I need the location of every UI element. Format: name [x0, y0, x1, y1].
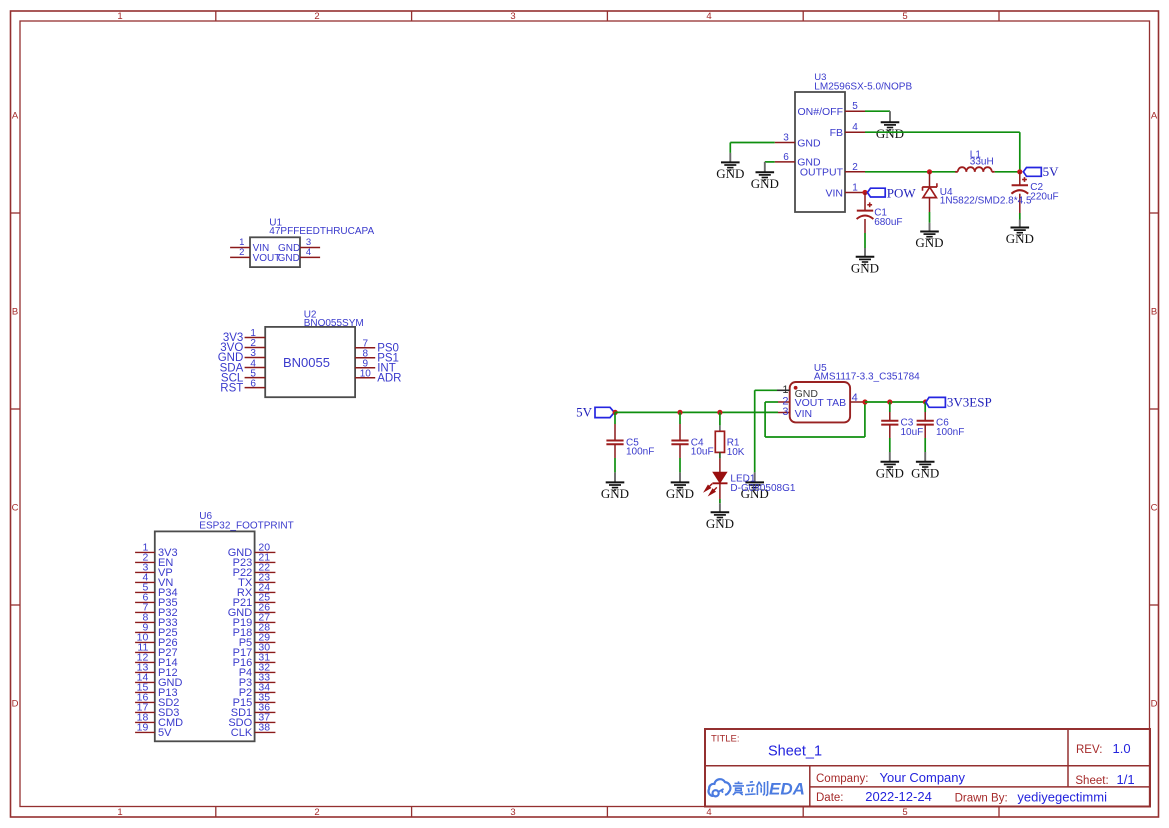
- U6 pin 12 P14: [135, 651, 177, 669]
- U6 pin 11 P27: [135, 641, 177, 659]
- svg-text:1: 1: [117, 807, 122, 818]
- U6 pin 28 P18: [233, 621, 276, 639]
- U6 pin 4 VN: [135, 571, 173, 589]
- wire rail to C6: [924, 402, 926, 421]
- svg-text:2: 2: [239, 247, 244, 258]
- svg-text:GND: GND: [278, 253, 300, 264]
- svg-text:10uF: 10uF: [691, 447, 714, 458]
- svg-text:33uH: 33uH: [970, 157, 994, 168]
- sheet title text: [768, 744, 822, 760]
- power flag 5V input: [576, 404, 614, 419]
- U2 pin 9 INT: [355, 358, 396, 374]
- U2 pin 6 RST: [220, 378, 265, 394]
- svg-text:VIN: VIN: [795, 408, 813, 420]
- U6 value label: [199, 521, 293, 532]
- junction at R1: [717, 410, 722, 415]
- svg-text:ON#/OFF: ON#/OFF: [797, 106, 843, 118]
- U6 pin 35 P15: [233, 691, 276, 709]
- U2 pin 1 3V3: [223, 328, 265, 344]
- svg-text:2: 2: [852, 162, 858, 173]
- IC U6 ESP32 body: [155, 531, 255, 741]
- R1 value label: [727, 447, 745, 458]
- U6 pin 38 CLK: [231, 721, 276, 739]
- svg-text:3: 3: [782, 406, 788, 418]
- U5 pin1 orientation dot: [794, 386, 798, 390]
- U6 pin 14 GND: [135, 671, 182, 689]
- svg-text:2: 2: [314, 11, 319, 22]
- U6 pin 2 EN: [135, 551, 173, 569]
- svg-text:GND: GND: [716, 166, 744, 181]
- capacitor C6 100nF: [917, 418, 965, 438]
- svg-text:RST: RST: [220, 382, 243, 394]
- wire C1 to ground: [864, 219, 866, 248]
- U6 pin 34 P2: [239, 681, 276, 699]
- U6 pin 21 P23: [233, 551, 276, 569]
- wire diode node to U4: [929, 172, 931, 187]
- svg-text:BNO055SYM: BNO055SYM: [304, 318, 364, 329]
- svg-text:GND: GND: [666, 486, 694, 501]
- date value: [865, 789, 932, 804]
- wire rail to C4: [679, 412, 681, 440]
- junction at 5V node: [1017, 169, 1022, 174]
- svg-text:GND: GND: [751, 176, 779, 191]
- svg-text:10: 10: [360, 368, 372, 379]
- svg-text:BN0055: BN0055: [283, 355, 330, 370]
- U6 pin 33 P3: [239, 671, 276, 689]
- U2 pin 10 ADR: [355, 368, 401, 384]
- wire U4 to ground: [929, 198, 931, 223]
- ground under U5 pin 1: [741, 472, 769, 501]
- svg-text:6: 6: [783, 152, 789, 163]
- logo EDA text: [769, 780, 805, 799]
- company value: [880, 770, 966, 785]
- wire LED to ground: [719, 483, 721, 503]
- svg-text:5: 5: [902, 11, 907, 22]
- svg-text:5V: 5V: [158, 727, 172, 739]
- resistor R1 10K: [715, 431, 724, 452]
- svg-text:3: 3: [510, 807, 515, 818]
- svg-text:38: 38: [258, 721, 270, 733]
- U5 pin 2 VOUT: [778, 395, 824, 409]
- svg-text:AMS1117-3.3_C351784: AMS1117-3.3_C351784: [814, 372, 920, 383]
- R1 reference label: [727, 437, 740, 448]
- svg-text:LM2596SX-5.0/NOPB: LM2596SX-5.0/NOPB: [814, 82, 912, 93]
- row letters right: [1151, 111, 1158, 710]
- U2 part name text: [283, 355, 330, 370]
- svg-text:A: A: [12, 111, 19, 122]
- date label: [816, 792, 844, 804]
- ground under U3 pin 3: [716, 153, 744, 181]
- U5 pin 4 TAB: [827, 392, 865, 409]
- ground under C5: [601, 472, 629, 501]
- svg-text:CLK: CLK: [231, 727, 253, 739]
- svg-text:1: 1: [117, 11, 122, 22]
- ground under U3 pin 5: [876, 111, 904, 141]
- svg-text:4: 4: [706, 11, 711, 22]
- wire VOUT loop: [765, 402, 865, 437]
- wire VIN to C1: [864, 193, 866, 211]
- U5 reference label: [814, 363, 827, 374]
- U3 value label: [814, 82, 912, 93]
- svg-text:ADR: ADR: [377, 373, 401, 385]
- U3 pin 1 VIN: [825, 183, 865, 200]
- svg-text:5: 5: [902, 807, 907, 818]
- U6 pin 23 TX: [238, 571, 275, 589]
- U4 value label: [940, 196, 1032, 207]
- ground under C4: [666, 472, 694, 501]
- U2 pin 7 PS0: [355, 338, 399, 354]
- U1 pin 3 GND: [278, 237, 320, 254]
- wire TAB output rail: [865, 401, 926, 403]
- U6 pin 26 GND: [228, 601, 276, 619]
- svg-text:4: 4: [852, 122, 858, 133]
- company label: [816, 773, 868, 785]
- U1 pin 4 GND: [278, 247, 321, 264]
- U3 pin 3 GND: [775, 133, 821, 150]
- U3 pin 6 GND: [775, 152, 821, 169]
- svg-text:GND: GND: [1006, 231, 1034, 246]
- sheet label: [1075, 775, 1108, 787]
- U6 pin 31 P16: [233, 651, 276, 669]
- capacitor C5 100nF: [606, 437, 654, 457]
- U6 reference label: [199, 511, 212, 522]
- ground under LED1: [706, 503, 734, 531]
- U6 pin 37 SDO: [228, 711, 275, 729]
- U6 pin 20 GND: [228, 541, 276, 559]
- junction at VIN pin: [862, 190, 867, 195]
- U5 value label: [814, 372, 920, 383]
- drawn-by label: [955, 793, 1008, 805]
- U6 pin 6 P35: [135, 591, 177, 609]
- svg-text:D-G080508G1: D-G080508G1: [730, 483, 795, 494]
- wire 5V to C5: [614, 412, 616, 440]
- svg-text:680uF: 680uF: [874, 217, 902, 228]
- svg-text:3V3ESP: 3V3ESP: [947, 395, 992, 410]
- U6 pin 1 3V3: [135, 541, 177, 559]
- wire C4 to ground: [679, 444, 681, 472]
- svg-text:GND: GND: [851, 260, 879, 275]
- capacitor C1 680uF: [857, 202, 903, 227]
- svg-text:Your Company: Your Company: [880, 770, 966, 785]
- svg-text:100nF: 100nF: [626, 447, 654, 458]
- wire R1 to LED: [719, 452, 721, 472]
- U6 pin 5 P34: [135, 581, 177, 599]
- capacitor C3 10uF: [881, 418, 923, 438]
- U2 pin 2 3VO: [220, 338, 265, 354]
- wire 5V node to C2: [1019, 172, 1021, 186]
- svg-text:VOUT: VOUT: [253, 253, 281, 264]
- U5 pin 1 GND: [777, 384, 818, 400]
- svg-text:5V: 5V: [576, 404, 593, 419]
- svg-text:47PFFEEDTHRUCAPA: 47PFFEEDTHRUCAPA: [269, 226, 374, 237]
- junction at diode U4 top: [927, 169, 932, 174]
- svg-text:GND: GND: [915, 235, 943, 250]
- junction at C4: [677, 410, 682, 415]
- junction at C3: [887, 399, 892, 404]
- svg-text:C: C: [12, 503, 19, 514]
- U6 pin 3 VP: [135, 561, 173, 579]
- svg-text:3: 3: [783, 133, 789, 144]
- svg-text:GND: GND: [797, 137, 821, 149]
- wire C2 to ground: [1019, 194, 1021, 220]
- U6 pin 24 RX: [237, 581, 275, 599]
- svg-text:POW: POW: [887, 185, 917, 200]
- svg-text:4: 4: [706, 807, 711, 818]
- svg-text:FB: FB: [830, 127, 843, 139]
- ground under C6: [911, 452, 939, 480]
- ground under C2: [1006, 220, 1034, 247]
- IC U1 47PFFEEDTHRUCAPA body: [250, 237, 300, 267]
- diode U4 schottky: [922, 183, 937, 197]
- wire pin5 to ground: [865, 110, 890, 112]
- svg-text:ESP32_FOOTPRINT: ESP32_FOOTPRINT: [199, 521, 293, 532]
- svg-text:220uF: 220uF: [1030, 192, 1058, 203]
- svg-text:1: 1: [852, 183, 858, 194]
- U3 reference label: [814, 72, 826, 83]
- svg-text:TITLE:: TITLE:: [711, 734, 740, 745]
- svg-text:5V: 5V: [1043, 164, 1060, 179]
- wire pin6 to ground: [765, 161, 775, 163]
- U1 reference label: [269, 217, 282, 228]
- rev value: [1113, 741, 1131, 756]
- U2 pin 3 GND: [218, 348, 265, 364]
- wire U5 GND net: [755, 390, 777, 472]
- capacitor C2 220uF: [1011, 177, 1058, 202]
- U6 pin 22 P22: [233, 561, 276, 579]
- power flag POW: [867, 185, 916, 200]
- U6 pin 32 P4: [239, 661, 276, 679]
- svg-text:4: 4: [306, 247, 311, 258]
- svg-text:19: 19: [137, 721, 149, 733]
- ground under C3: [876, 452, 904, 480]
- junction at C6: [923, 399, 928, 404]
- column numbers top: [117, 11, 907, 22]
- IC U2 BNO055 body: [265, 327, 355, 397]
- LED1 reference label: [730, 473, 755, 484]
- LED1 value label: [730, 483, 795, 494]
- svg-text:GND: GND: [797, 157, 821, 169]
- logo cloud icon: [708, 779, 730, 796]
- svg-text:4: 4: [852, 392, 858, 404]
- junction at TAB: [862, 399, 867, 404]
- U2 value label: [304, 318, 364, 329]
- row letters left: [12, 111, 19, 710]
- svg-text:GND: GND: [706, 516, 734, 531]
- svg-text:GND: GND: [911, 465, 939, 480]
- svg-text:1.0: 1.0: [1113, 741, 1131, 756]
- rev label: [1076, 744, 1102, 756]
- U6 pin 10 P26: [135, 631, 177, 649]
- L1 reference label: [970, 150, 982, 161]
- U6 pin 36 SD1: [231, 701, 276, 719]
- U6 pin 27 P19: [233, 611, 276, 629]
- wire OUTPUT to diode node: [865, 171, 957, 173]
- svg-text:GND: GND: [876, 465, 904, 480]
- U6 pin 30 P17: [233, 641, 276, 659]
- svg-text:2: 2: [314, 807, 319, 818]
- power flag 3V3ESP: [926, 395, 992, 410]
- sheet value: [1117, 772, 1135, 787]
- U1 value label: [269, 226, 374, 237]
- title block frame: [705, 729, 1150, 807]
- wire C3 to ground: [889, 425, 891, 452]
- svg-text:D: D: [12, 699, 19, 710]
- svg-text:A: A: [1151, 111, 1158, 122]
- IC U3 LM2596 body: [795, 92, 845, 212]
- U6 pin 16 SD2: [135, 691, 179, 709]
- U6 pin 19 5V: [135, 721, 172, 739]
- U1 pin 2 VOUT: [230, 247, 280, 264]
- wire pin3 to ground: [730, 143, 774, 153]
- svg-text:EDA: EDA: [769, 780, 805, 799]
- U3 pin 5 ON#/OFF: [797, 101, 865, 118]
- ground under U4: [915, 223, 943, 250]
- drawn-by value: [1017, 790, 1107, 805]
- wire inductor to 5V node: [995, 171, 1020, 173]
- svg-text:Sheet_1: Sheet_1: [768, 744, 822, 760]
- column numbers bottom: [117, 807, 907, 818]
- svg-text:1/1: 1/1: [1117, 772, 1135, 787]
- U2 pin 8 PS1: [355, 348, 399, 364]
- U6 pin 9 P25: [135, 621, 177, 639]
- svg-text:1: 1: [782, 384, 788, 396]
- svg-text:6: 6: [250, 378, 256, 389]
- wire C6 to ground: [924, 425, 926, 452]
- logo CJK text: [733, 781, 768, 795]
- svg-text:VOUT: VOUT: [795, 397, 825, 409]
- U6 pin 18 CMD: [135, 711, 183, 729]
- svg-text:1N5822/SMD2.8*4.5: 1N5822/SMD2.8*4.5: [940, 196, 1032, 207]
- svg-text:VIN: VIN: [825, 187, 843, 199]
- title label: [711, 734, 740, 745]
- svg-text:Company:: Company:: [816, 773, 868, 785]
- U6 pin 17 SD3: [135, 701, 179, 719]
- svg-text:TAB: TAB: [827, 397, 847, 409]
- L1 value label: [970, 157, 994, 168]
- wire rail to R1: [719, 412, 721, 431]
- inductor L1: [955, 167, 995, 172]
- junction at C5: [614, 411, 616, 413]
- svg-text:Sheet:: Sheet:: [1075, 775, 1108, 787]
- U6 pin 8 P33: [135, 611, 177, 629]
- U3 pin 4 FB: [830, 122, 865, 139]
- svg-text:yediyegectimmi: yediyegectimmi: [1017, 790, 1107, 805]
- wire 5V rail: [615, 411, 778, 413]
- svg-text:2022-12-24: 2022-12-24: [865, 789, 932, 804]
- svg-text:B: B: [12, 307, 18, 318]
- wire FB net vertical: [1019, 132, 1021, 172]
- U5 pin 3 VIN: [778, 406, 812, 420]
- U6 pin 25 P21: [233, 591, 276, 609]
- svg-text:GND: GND: [601, 486, 629, 501]
- U6 pin 29 P5: [239, 631, 276, 649]
- svg-text:5: 5: [852, 101, 858, 112]
- ground under C1: [851, 248, 879, 275]
- U2 pin 5 SCL: [221, 368, 265, 384]
- svg-text:Drawn By:: Drawn By:: [955, 793, 1008, 805]
- LED LED1: [705, 472, 728, 494]
- U4 reference label: [940, 187, 953, 198]
- svg-text:REV:: REV:: [1076, 744, 1102, 756]
- U6 pin 13 P12: [135, 661, 177, 679]
- U3 pin 2 OUTPUT: [800, 162, 865, 179]
- svg-text:D: D: [1151, 699, 1158, 710]
- wire C5 to ground: [614, 444, 616, 472]
- ground under U3 pin 6: [751, 162, 779, 191]
- U1 pin 1 VIN: [230, 237, 269, 254]
- U2 reference label: [304, 309, 317, 320]
- junction at 5V flag: [613, 410, 618, 415]
- svg-text:GND: GND: [876, 126, 904, 141]
- U2 pin 4 SDA: [220, 358, 266, 374]
- power flag 5V output: [1023, 164, 1059, 179]
- IC U5 AMS1117 body: [790, 382, 850, 422]
- wire FB net horizontal: [865, 131, 1020, 133]
- U6 pin 15 P13: [135, 681, 177, 699]
- svg-text:3: 3: [510, 11, 515, 22]
- wire rail to C3: [889, 402, 891, 421]
- svg-text:B: B: [1151, 307, 1157, 318]
- svg-text:100nF: 100nF: [936, 427, 964, 438]
- U6 pin 7 P32: [135, 601, 177, 619]
- svg-text:Date:: Date:: [816, 792, 844, 804]
- svg-text:10K: 10K: [727, 447, 745, 458]
- svg-text:C: C: [1151, 503, 1158, 514]
- svg-text:10uF: 10uF: [901, 427, 924, 438]
- capacitor C4 10uF: [671, 437, 713, 457]
